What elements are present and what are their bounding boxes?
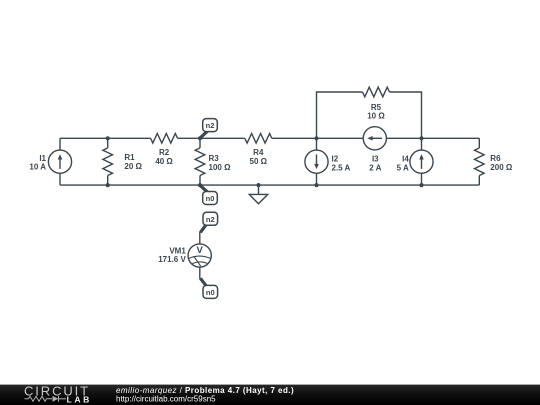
svg-text:2 A: 2 A [369,163,381,172]
ground [249,185,267,204]
svg-text:5 A: 5 A [397,163,409,172]
svg-text:n2: n2 [206,215,215,224]
wire: wedge node n2 at R3 top [200,131,207,138]
wire: top rail segment I3 to R6 [386,137,479,139]
svg-text:40 Ω: 40 Ω [155,157,173,166]
svg-text:emilio-marquez / Problema 4.7: emilio-marquez / Problema 4.7 (Hayt, 7 e… [116,386,294,395]
node junction dot bottom rail x=316.5 [314,183,318,187]
svg-text:n0: n0 [206,288,215,297]
label R5 [367,103,385,121]
wire: wedge node n2 at VM1 top [200,225,206,233]
resistor R1 [103,148,113,176]
label R2 [155,148,173,166]
svg-text:R5: R5 [371,103,382,112]
wire: I4 bottom lead [421,173,423,185]
svg-text:http://circuitlab.com/cr59sn5: http://circuitlab.com/cr59sn5 [116,395,216,404]
node junction dot top rail x=200 [198,136,202,140]
node junction dot bottom rail x=107.7 [106,183,110,187]
svg-text:50 Ω: 50 Ω [250,157,268,166]
wire: R1 top lead [107,138,109,148]
label I4 [397,155,410,173]
node junction dot top rail x=107.7 [106,136,110,140]
wire: top rail segment I1 to R2 [60,137,151,139]
current source I1 [48,150,71,173]
svg-text:2.5 A: 2.5 A [332,163,351,172]
wire: R3 top lead [199,138,201,148]
node junction dot top rail x=421.5 [419,136,423,140]
current source I4 [410,150,433,173]
label I1 [29,154,46,172]
svg-text:10 Ω: 10 Ω [367,112,385,121]
wire: R6 top lead [478,138,480,148]
svg-text:I1: I1 [39,154,46,163]
wire: I1 top lead [59,138,61,150]
wire: R1 bottom lead [107,176,109,186]
node junction dot bottom rail x=421.5 [419,183,423,187]
current source I3 [363,127,386,150]
label R4 [250,148,268,166]
wire: R5 left leg [317,92,363,138]
node n2 (VM1 top) flag [203,212,218,225]
wire: bottom rail [60,184,479,186]
svg-text:LAB: LAB [67,394,92,404]
svg-text:R3: R3 [209,154,220,163]
wire: I1 bottom lead [59,173,61,185]
node junction dot bottom rail x=200 [198,183,202,187]
label R6 [490,154,513,172]
svg-text:R1: R1 [124,153,135,162]
resistor R3 [195,148,205,176]
svg-text:n0: n0 [206,194,215,203]
wire: VM1 bottom lead [199,267,201,279]
wire: top rail segment R2 to R4 [178,137,245,139]
wire: R5 right leg [390,92,422,138]
label R3 [209,154,232,172]
resistor R2 [151,134,178,144]
current source I2 [305,150,328,173]
svg-text:n2: n2 [206,121,215,130]
svg-text:20 Ω: 20 Ω [124,162,142,171]
svg-text:I3: I3 [372,155,379,164]
node n0 (R3 bottom) flag [203,192,218,205]
svg-text:R2: R2 [159,148,170,157]
wire: wedge node n0 at VM1 bottom [200,278,206,285]
resistor R6 [475,148,485,176]
wire: top rail segment R4 to I3 [272,137,363,139]
label VM1 [158,246,186,264]
svg-text:VM1: VM1 [169,246,186,255]
node n2 (R3 top) flag [203,119,218,132]
wire: wedge node n0 at R3 bottom [200,186,207,192]
wire: I2 bottom lead [316,173,318,185]
wire: R3 bottom lead [199,176,201,186]
node junction dot bottom rail x=258.5 [256,183,260,187]
voltmeter VM1 [188,244,211,267]
wire: VM1 top lead [199,232,201,244]
wire: I2 top lead [316,138,318,150]
label I2 [332,155,351,173]
svg-text:R6: R6 [490,154,501,163]
label I3 [369,155,381,173]
svg-text:10 A: 10 A [29,163,46,172]
svg-text:R4: R4 [253,148,264,157]
svg-text:100 Ω: 100 Ω [209,163,232,172]
node junction dot top rail x=316.5 [314,136,318,140]
svg-text:171.6 V: 171.6 V [158,255,186,264]
svg-text:I2: I2 [332,155,339,164]
wire: R6 bottom lead [478,176,480,186]
svg-text:V: V [197,245,204,256]
svg-text:200 Ω: 200 Ω [490,163,513,172]
resistor R5 [363,87,390,97]
svg-text:I4: I4 [402,155,409,164]
label R1 [124,153,142,171]
wire: I4 top lead [421,138,423,150]
node n0 (VM1 bottom) flag [203,285,218,298]
resistor R4 [245,134,272,144]
CircuitLab logo resistor-diode glyph [25,396,67,402]
